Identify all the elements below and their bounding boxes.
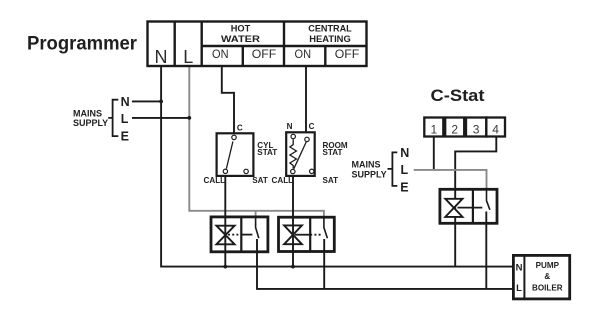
HW zone valve box: [211, 217, 268, 252]
svg-text:ON: ON: [212, 47, 229, 61]
mains supply left bracket: [108, 100, 118, 136]
C-stat valve box: [440, 189, 497, 223]
cyl stat CALL terminal: [223, 169, 227, 173]
HW valve mechanical link (dotted): [228, 234, 241, 236]
wire grey branch into HW valve switch: [255, 211, 257, 217]
svg-text:Programmer: Programmer: [27, 33, 137, 55]
HW valve switch: [256, 217, 259, 238]
C-Stat terminal 4: [486, 118, 505, 137]
svg-text:SAT: SAT: [252, 176, 268, 185]
wire C-stat valve switch out down to L wire: [485, 212, 487, 289]
room stat box: [286, 132, 315, 176]
CH valve switch: [324, 217, 328, 238]
CH zone valve box: [279, 217, 335, 251]
svg-text:CALL: CALL: [204, 176, 226, 185]
svg-text:OFF: OFF: [335, 47, 360, 61]
svg-text:N: N: [287, 122, 293, 131]
svg-text:ON: ON: [295, 47, 312, 61]
svg-text:SAT: SAT: [323, 176, 339, 185]
svg-text:SUPPLY: SUPPLY: [352, 170, 387, 180]
svg-text:2: 2: [451, 123, 458, 137]
svg-text:E: E: [121, 130, 129, 144]
svg-text:HOT: HOT: [231, 24, 251, 34]
junction mains L / programmer L: [187, 116, 191, 120]
wire CENTRAL HEATING ON to room stat C: [305, 66, 307, 133]
C-Stat terminal 2: [445, 118, 464, 137]
svg-text:SUPPLY: SUPPLY: [73, 118, 108, 128]
svg-text:L: L: [401, 163, 409, 177]
C-Stat terminal 3: [466, 118, 486, 137]
svg-text:N: N: [155, 47, 168, 67]
svg-text:STAT: STAT: [323, 148, 343, 157]
room stat CALL terminal: [291, 169, 295, 173]
HW valve motor (bowtie): [216, 226, 234, 245]
C-Stat terminal 1: [424, 118, 443, 137]
cyl stat switch lever: [226, 142, 233, 169]
svg-text:N: N: [400, 146, 409, 160]
svg-text:C: C: [237, 124, 243, 133]
CH valve motor (bowtie): [284, 225, 302, 244]
wire mains-left N lead: [132, 100, 161, 102]
svg-text:3: 3: [473, 123, 480, 137]
wire room stat CALL down through CH valve motor to N wire: [292, 176, 294, 267]
svg-text:STAT: STAT: [257, 148, 277, 157]
svg-text:L: L: [516, 283, 522, 294]
wire CH valve switch out down to L wire: [323, 239, 325, 289]
svg-text:N: N: [121, 95, 130, 109]
wire C-Stat terminal 1 down to mains-right L: [433, 137, 435, 170]
svg-text:1: 1: [430, 123, 437, 137]
svg-text:4: 4: [492, 123, 499, 137]
wire HOT WATER ON to cyl stat C: [222, 66, 234, 134]
C-stat valve link: [458, 207, 483, 209]
CH valve mechanical link (dotted): [295, 234, 310, 236]
svg-text:L: L: [183, 47, 193, 67]
room stat accelerator resistor: [290, 139, 297, 168]
svg-text:MAINS: MAINS: [352, 160, 381, 170]
pump and boiler box: [513, 255, 569, 299]
room stat switch lever: [294, 142, 306, 169]
cyl stat SAT terminal: [244, 169, 248, 173]
svg-text:BOILER: BOILER: [532, 283, 563, 292]
room stat SAT terminal: [310, 169, 314, 173]
svg-text:MAINS: MAINS: [73, 108, 102, 118]
junction HW valve motor / N wire: [223, 265, 227, 269]
cylinder stat box: [217, 133, 254, 176]
wire mains-right L (grey) to C-stat valve switch: [414, 170, 487, 190]
svg-text:C-Stat: C-Stat: [431, 86, 485, 105]
svg-text:PUMP: PUMP: [536, 261, 560, 270]
wire L (grey) from programmer L terminal down, right, into CH valve switch: [189, 66, 324, 217]
mains supply right bracket: [388, 152, 398, 186]
room stat N terminal: [291, 134, 295, 138]
C-stat valve motor (bowtie): [445, 199, 462, 217]
junction mains N / programmer N: [159, 100, 163, 104]
wire mains-left L lead: [132, 117, 189, 119]
svg-text:N: N: [516, 263, 523, 274]
programmer box: [148, 22, 367, 67]
svg-text:HEATING: HEATING: [309, 34, 351, 44]
wire N from programmer N terminal down and right to pump N: [161, 66, 513, 267]
svg-text:OFF: OFF: [252, 47, 277, 61]
svg-text:&: &: [544, 272, 550, 281]
C-stat valve switch: [487, 189, 490, 209]
svg-text:C: C: [309, 122, 315, 131]
svg-text:CALL: CALL: [272, 176, 294, 185]
svg-text:L: L: [121, 112, 129, 126]
svg-text:E: E: [400, 181, 408, 195]
room stat C terminal pivot: [305, 137, 309, 141]
wire cyl stat CALL down through HW valve motor to N wire: [224, 176, 226, 267]
svg-text:CENTRAL: CENTRAL: [308, 24, 352, 34]
wire HW valve switch out down and right to pump L: [257, 239, 514, 289]
junction CH valve motor / N wire: [291, 265, 295, 269]
svg-text:WATER: WATER: [221, 34, 260, 44]
cyl stat C terminal: [232, 135, 236, 139]
wire C-Stat terminal 4 to C-stat valve motor and down to N wire: [455, 137, 496, 267]
